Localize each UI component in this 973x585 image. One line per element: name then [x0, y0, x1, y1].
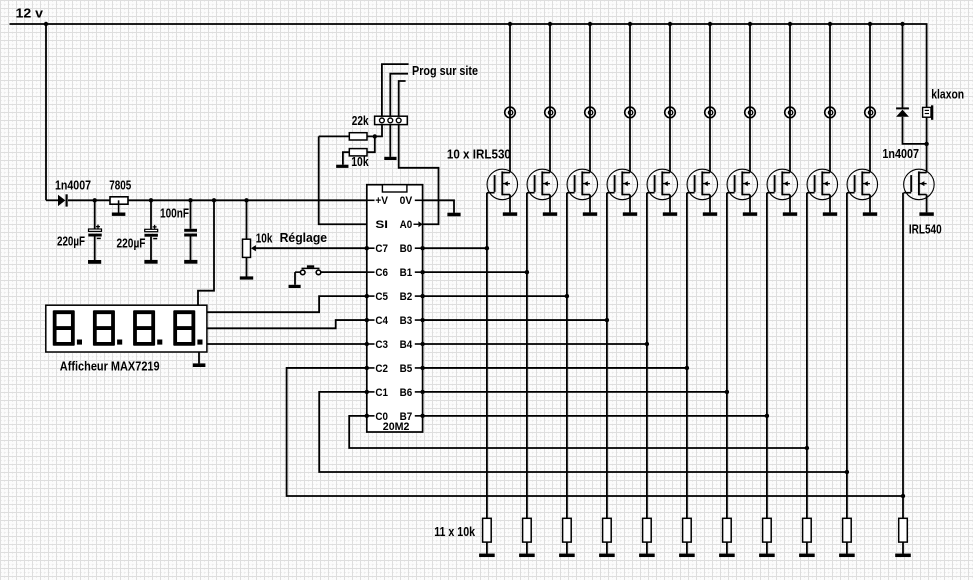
svg-text:100nF: 100nF — [160, 205, 189, 220]
svg-text:B0: B0 — [400, 243, 413, 255]
svg-text:11 x 10k: 11 x 10k — [434, 525, 475, 539]
svg-text:Réglage: Réglage — [280, 230, 328, 245]
svg-text:B5: B5 — [400, 363, 413, 375]
svg-text:220µF: 220µF — [117, 235, 146, 250]
svg-text:20M2: 20M2 — [383, 421, 410, 433]
svg-text:22k: 22k — [352, 113, 369, 128]
svg-text:7805: 7805 — [109, 177, 131, 192]
svg-text:A0: A0 — [400, 219, 413, 231]
svg-text:1n4007: 1n4007 — [882, 146, 919, 161]
svg-text:0V: 0V — [400, 195, 413, 207]
svg-text:12 v: 12 v — [16, 5, 44, 20]
svg-text:B4: B4 — [400, 339, 413, 351]
svg-text:B6: B6 — [400, 387, 413, 399]
svg-text:B1: B1 — [400, 267, 413, 279]
svg-text:C3: C3 — [375, 339, 388, 351]
svg-text:klaxon: klaxon — [931, 86, 964, 101]
svg-text:10k: 10k — [256, 230, 273, 245]
svg-text:+V: +V — [375, 195, 388, 207]
svg-text:1n4007: 1n4007 — [55, 177, 91, 192]
svg-text:10k: 10k — [351, 154, 369, 169]
svg-text:Prog sur site: Prog sur site — [412, 63, 478, 78]
svg-text:B3: B3 — [400, 315, 413, 327]
svg-text:C2: C2 — [375, 363, 388, 375]
svg-text:Afficheur MAX7219: Afficheur MAX7219 — [60, 358, 160, 373]
svg-text:10 x IRL530: 10 x IRL530 — [447, 147, 511, 162]
svg-text:B2: B2 — [400, 291, 413, 303]
svg-text:C5: C5 — [375, 291, 388, 303]
svg-text:C7: C7 — [375, 243, 388, 255]
svg-text:C1: C1 — [375, 387, 388, 399]
svg-text:C6: C6 — [375, 267, 388, 279]
svg-text:220µF: 220µF — [57, 234, 85, 249]
svg-text:SI: SI — [375, 219, 388, 231]
svg-text:C4: C4 — [375, 315, 388, 327]
svg-text:IRL540: IRL540 — [909, 222, 942, 237]
